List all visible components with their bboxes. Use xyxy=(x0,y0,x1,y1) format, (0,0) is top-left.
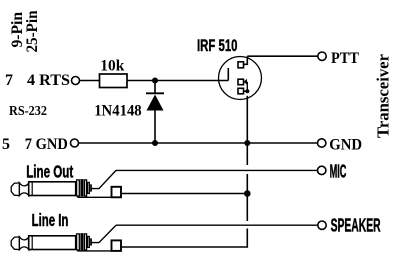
wire RTS to resistor xyxy=(80,80,100,82)
jack J2 collar ring 2 xyxy=(85,234,87,250)
jack J2 barrel inner line xyxy=(31,236,33,250)
jack J1 barrel xyxy=(29,182,76,196)
node A junction dot xyxy=(152,78,158,84)
jack J1 lug step xyxy=(88,183,90,194)
transistor Q1 body circle xyxy=(219,57,262,100)
wire body arrow to source xyxy=(246,82,248,92)
wire ground rail xyxy=(79,142,318,144)
wire J2 tip lead xyxy=(92,225,117,242)
svg-text:7: 7 xyxy=(5,72,13,89)
jack J2 lug step xyxy=(88,237,90,248)
svg-text:RS-232: RS-232 xyxy=(9,103,47,118)
wire J1 tip lead xyxy=(92,170,117,188)
svg-text:1N4148: 1N4148 xyxy=(94,103,142,120)
transistor Q1 body arrow xyxy=(244,79,247,85)
transistor Q1 source lead xyxy=(244,90,248,92)
svg-text:25-Pin: 25-Pin xyxy=(24,10,41,52)
svg-text:MIC: MIC xyxy=(330,161,347,181)
jack J2 lug tip xyxy=(90,239,91,245)
jack J1 plug neck xyxy=(19,183,28,196)
jack J2 plug neck xyxy=(19,237,28,250)
wire MIC line xyxy=(116,169,318,171)
jack J1 Line Out plug tip xyxy=(11,183,19,196)
wire source bus (below MIC line to sleeve node) xyxy=(246,174,248,194)
jack J2 sleeve terminal square xyxy=(112,240,122,251)
wire source bus upper (GND to MIC crossing) xyxy=(246,96,248,143)
diode D1 wire to ground rail xyxy=(154,110,156,143)
terminal GND left xyxy=(71,139,79,147)
svg-text:4 RTS: 4 RTS xyxy=(27,72,70,89)
transistor Q1 drain stub square xyxy=(238,62,244,68)
svg-text:PTT: PTT xyxy=(331,50,359,67)
transistor Q1 gate bar xyxy=(227,68,229,81)
terminal GND right xyxy=(318,139,326,147)
resistor R1 body xyxy=(100,74,128,88)
svg-text:10k: 10k xyxy=(100,58,124,75)
terminal MIC xyxy=(318,166,326,174)
terminal RTS xyxy=(72,77,80,85)
jack J2 collar ring black xyxy=(80,233,83,250)
svg-text:IRF 510: IRF 510 xyxy=(197,36,238,55)
jack J1 lug tip xyxy=(90,185,91,191)
diode D1 cathode bar xyxy=(146,92,164,94)
node source-ground junction dot xyxy=(244,140,250,146)
jack J1 collar ring black xyxy=(80,179,83,196)
svg-text:GND: GND xyxy=(329,137,362,154)
svg-text:7 GND: 7 GND xyxy=(25,136,68,153)
diode D1 wire from node A down xyxy=(154,81,156,94)
node sleeve bus junction dot xyxy=(244,190,251,197)
wire drain to PTT xyxy=(247,55,318,57)
transistor Q1 body stub square xyxy=(238,79,244,85)
jack J2 collar ring 1 xyxy=(77,234,80,250)
wire node A to gate xyxy=(155,80,228,82)
wire source bus (GND down to crossing gap) xyxy=(246,143,248,165)
wire SPEAKER line xyxy=(116,224,318,226)
wire J1 sleeve square to bus xyxy=(121,193,247,195)
node diode-ground junction dot xyxy=(152,140,158,146)
node source junction dot xyxy=(245,89,249,93)
transistor Q1 source stub square xyxy=(238,88,244,94)
svg-text:Line In: Line In xyxy=(32,210,69,230)
jack J2 barrel xyxy=(29,236,76,250)
jack J1 collar ring 1 xyxy=(77,180,80,196)
svg-text:SPEAKER: SPEAKER xyxy=(331,215,381,235)
wire J2 sleeve lead xyxy=(78,250,112,251)
terminal PTT xyxy=(318,52,326,60)
diode D1 triangle xyxy=(147,95,164,111)
svg-text:Transceiver: Transceiver xyxy=(374,54,393,138)
terminal SPEAKER xyxy=(318,221,326,229)
svg-text:Line Out: Line Out xyxy=(26,161,73,181)
wire J1 sleeve lead xyxy=(78,196,112,198)
jack J1 sleeve terminal square xyxy=(112,187,122,198)
wire source bus (sleeve node to SPEAKER crossing) xyxy=(246,194,248,222)
wire source bus (below SPEAKER line, turn to Line In sleeve) xyxy=(121,229,247,248)
svg-text:5: 5 xyxy=(2,136,10,153)
jack J2 Line In plug tip xyxy=(11,237,19,250)
jack J1 barrel inner line xyxy=(31,182,33,196)
jack J1 collar ring 2 xyxy=(85,180,87,196)
transistor Q1 drain lead xyxy=(244,56,248,64)
wire resistor to node A xyxy=(127,80,155,82)
